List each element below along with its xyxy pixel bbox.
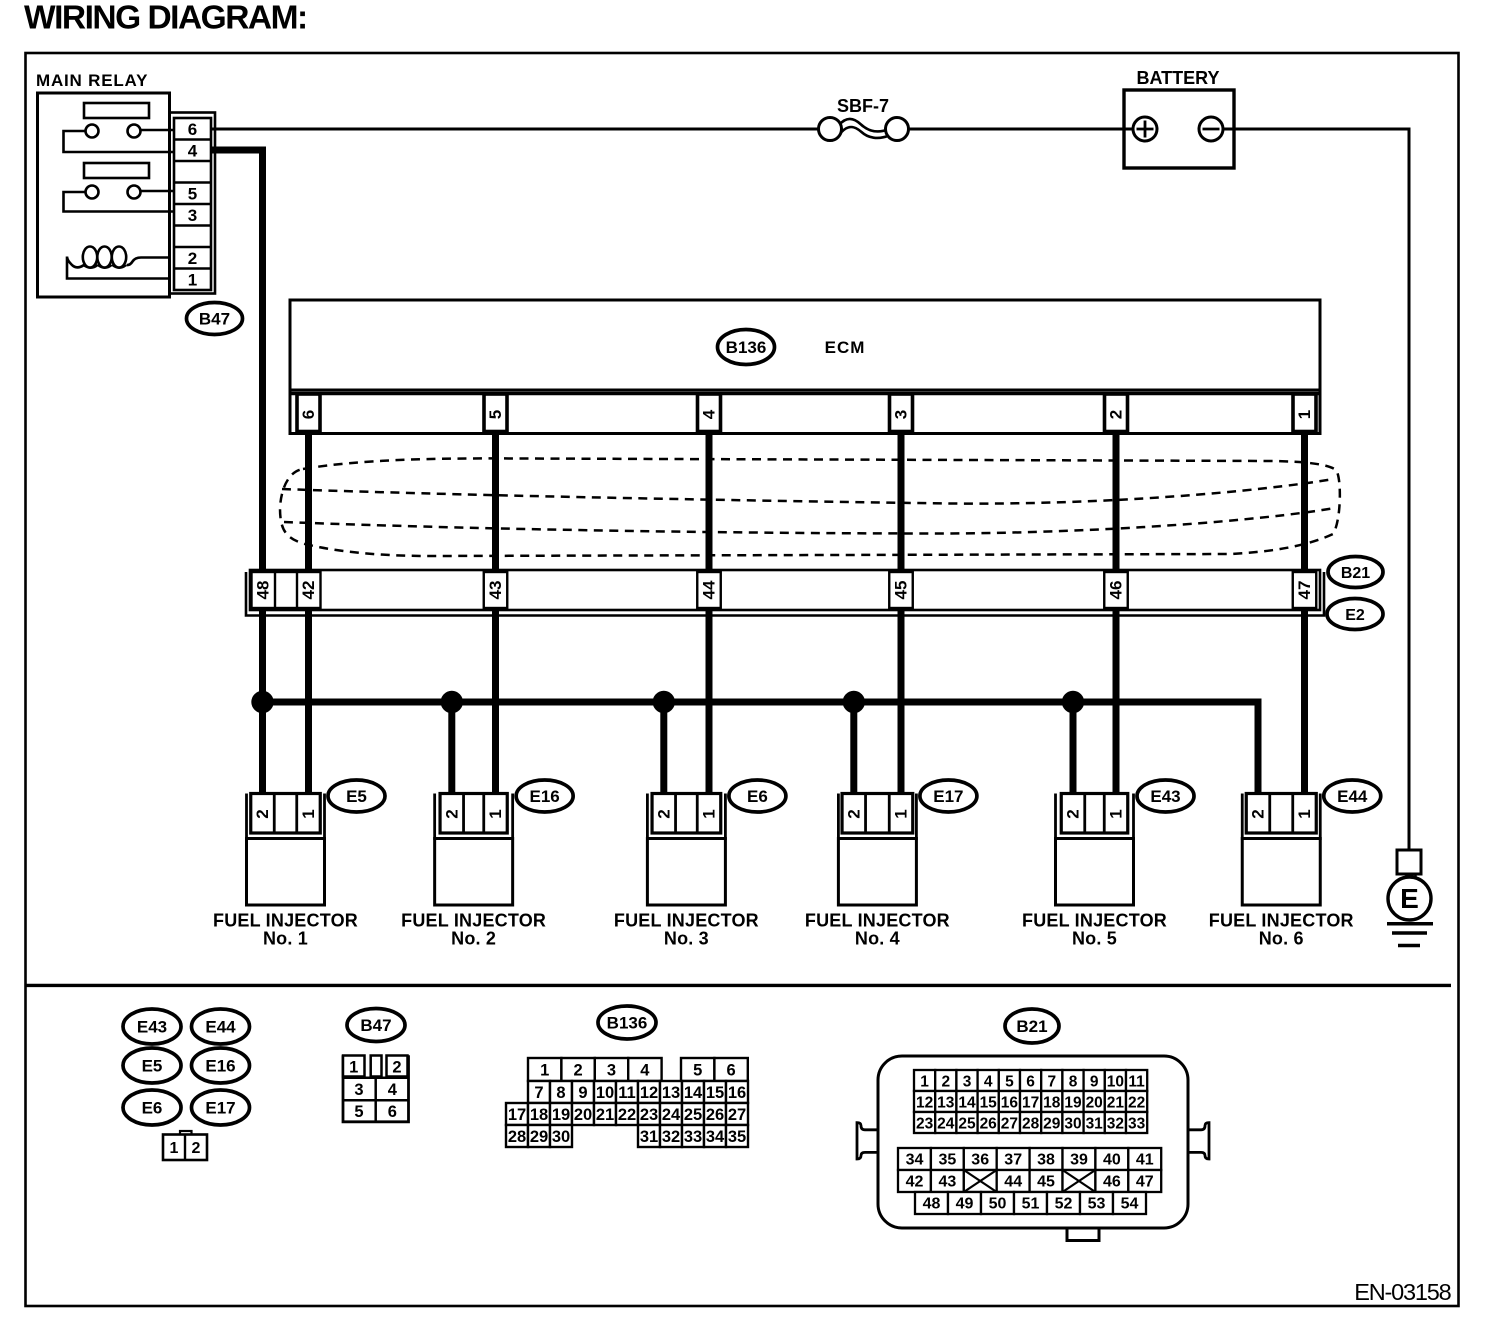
oval E43 view xyxy=(123,1009,181,1044)
svg-text:3: 3 xyxy=(607,1062,616,1080)
oval E2 row label xyxy=(1327,599,1383,630)
svg-text:1: 1 xyxy=(700,809,719,818)
oval E6 xyxy=(729,780,786,812)
svg-text:34: 34 xyxy=(706,1128,725,1146)
oval E5 view xyxy=(123,1048,181,1083)
svg-text:18: 18 xyxy=(530,1106,548,1124)
svg-text:48: 48 xyxy=(923,1196,941,1213)
svg-text:E6: E6 xyxy=(747,787,768,806)
svg-text:43: 43 xyxy=(486,581,505,600)
svg-text:1: 1 xyxy=(1295,410,1314,419)
svg-text:6: 6 xyxy=(188,120,197,139)
oval E44 view xyxy=(192,1009,250,1044)
svg-text:43: 43 xyxy=(939,1174,957,1191)
svg-text:26: 26 xyxy=(706,1106,724,1124)
svg-text:E16: E16 xyxy=(530,787,560,806)
svg-text:13: 13 xyxy=(662,1084,680,1102)
svg-text:1: 1 xyxy=(1295,809,1314,818)
svg-text:7: 7 xyxy=(534,1084,543,1102)
svg-text:6: 6 xyxy=(299,410,318,419)
wire ground bus to injector No.3 pin 2 xyxy=(660,702,667,798)
relay contact 1 left xyxy=(86,125,99,138)
oval E43 xyxy=(1137,780,1194,812)
oval B21 view xyxy=(1005,1009,1059,1043)
svg-text:20: 20 xyxy=(1086,1095,1103,1112)
svg-text:36: 36 xyxy=(971,1152,989,1169)
svg-text:B21: B21 xyxy=(1341,565,1370,582)
svg-text:39: 39 xyxy=(1070,1152,1088,1169)
svg-text:33: 33 xyxy=(684,1128,702,1146)
2-pin connector view xyxy=(163,1131,207,1160)
oval B47 xyxy=(187,303,243,335)
svg-text:5: 5 xyxy=(693,1062,702,1080)
svg-text:23: 23 xyxy=(640,1106,658,1124)
svg-text:9: 9 xyxy=(1090,1074,1099,1091)
svg-text:No. 1: No. 1 xyxy=(263,929,308,949)
svg-text:1: 1 xyxy=(299,809,318,818)
oval E17 xyxy=(920,780,977,812)
svg-text:5: 5 xyxy=(1005,1074,1014,1091)
svg-text:29: 29 xyxy=(1043,1116,1061,1133)
svg-text:E6: E6 xyxy=(142,1099,163,1118)
svg-text:8: 8 xyxy=(1069,1074,1078,1091)
wire ECM pin 1 to pin 47 to injector pin 1 xyxy=(1301,433,1308,798)
junction dot at injector No.1 branch xyxy=(251,691,273,713)
connector B47 pin grid view xyxy=(343,1055,409,1122)
svg-text:11: 11 xyxy=(1128,1074,1145,1091)
ground E xyxy=(1387,850,1433,946)
relay contact 2 right xyxy=(128,186,141,199)
svg-text:E5: E5 xyxy=(346,787,367,806)
svg-text:1: 1 xyxy=(892,809,911,818)
oval E44 xyxy=(1324,780,1381,812)
svg-text:ECM: ECM xyxy=(825,338,866,357)
svg-text:30: 30 xyxy=(1064,1116,1081,1133)
svg-text:2: 2 xyxy=(392,1058,401,1076)
svg-text:12: 12 xyxy=(916,1095,933,1112)
svg-text:16: 16 xyxy=(1001,1095,1019,1112)
svg-text:1: 1 xyxy=(920,1074,929,1091)
oval B136 view xyxy=(598,1006,656,1039)
fuse SBF-7 xyxy=(819,118,909,141)
separator line between diagram and connector views xyxy=(26,984,1452,987)
svg-text:27: 27 xyxy=(728,1106,746,1124)
svg-text:1: 1 xyxy=(349,1058,358,1076)
wire contact1-right to pin 6 xyxy=(141,129,177,132)
main relay box xyxy=(38,93,170,297)
oval E5 xyxy=(328,780,385,812)
svg-text:49: 49 xyxy=(956,1196,974,1213)
svg-text:15: 15 xyxy=(980,1095,998,1112)
svg-text:2: 2 xyxy=(654,809,673,818)
oval E16 view xyxy=(192,1048,250,1083)
svg-text:13: 13 xyxy=(937,1095,955,1112)
junction dot at injector No.4 branch xyxy=(843,691,865,713)
svg-text:10: 10 xyxy=(596,1084,614,1102)
svg-text:42: 42 xyxy=(299,581,318,600)
svg-text:E43: E43 xyxy=(1150,787,1180,806)
svg-text:44: 44 xyxy=(700,580,719,599)
relay contact bar 1 xyxy=(84,103,149,118)
svg-text:48: 48 xyxy=(254,581,273,600)
ECM connector row xyxy=(290,390,1320,434)
dashed wiring harness outline xyxy=(280,458,1340,556)
connector B21 pin grid view xyxy=(898,1070,1161,1214)
svg-text:EN-03158: EN-03158 xyxy=(1354,1279,1451,1305)
connector B47 strip outline xyxy=(170,113,216,294)
wire ECM pin 3 to pin 45 to injector pin 1 xyxy=(898,433,905,798)
svg-text:45: 45 xyxy=(892,581,911,600)
svg-text:16: 16 xyxy=(728,1084,746,1102)
svg-text:3: 3 xyxy=(354,1081,363,1099)
svg-text:19: 19 xyxy=(1064,1095,1082,1112)
svg-text:18: 18 xyxy=(1043,1095,1061,1112)
svg-text:28: 28 xyxy=(508,1128,526,1146)
svg-text:E16: E16 xyxy=(205,1057,235,1076)
svg-text:45: 45 xyxy=(1037,1174,1055,1191)
svg-text:E2: E2 xyxy=(1345,607,1365,624)
svg-text:1: 1 xyxy=(540,1062,549,1080)
svg-text:28: 28 xyxy=(1022,1116,1040,1133)
svg-text:4: 4 xyxy=(640,1062,650,1080)
svg-text:2: 2 xyxy=(1064,809,1083,818)
connector B21 housing xyxy=(857,1056,1209,1241)
svg-text:30: 30 xyxy=(552,1128,570,1146)
svg-text:6: 6 xyxy=(1026,1074,1035,1091)
wire fuse to battery plus xyxy=(901,128,1134,131)
svg-text:23: 23 xyxy=(916,1116,934,1133)
svg-text:53: 53 xyxy=(1088,1196,1106,1213)
wire ground bus to injector No.5 pin 2 xyxy=(1070,702,1077,798)
svg-text:B136: B136 xyxy=(726,338,767,357)
lower connector row xyxy=(250,570,1320,610)
svg-text:FUEL INJECTOR: FUEL INJECTOR xyxy=(614,911,759,931)
oval E16 xyxy=(516,780,573,812)
fuel injector No. 4 xyxy=(805,794,950,949)
wire pin6 to fuse xyxy=(211,128,826,131)
relay coil xyxy=(67,247,168,279)
svg-text:38: 38 xyxy=(1037,1152,1055,1169)
svg-text:46: 46 xyxy=(1103,1174,1121,1191)
svg-text:B21: B21 xyxy=(1016,1017,1047,1036)
svg-text:E44: E44 xyxy=(205,1018,236,1037)
svg-text:1: 1 xyxy=(486,809,505,818)
svg-text:35: 35 xyxy=(728,1128,746,1146)
svg-text:26: 26 xyxy=(980,1116,998,1133)
svg-text:37: 37 xyxy=(1004,1152,1022,1169)
svg-text:E44: E44 xyxy=(1337,787,1368,806)
svg-text:WIRING DIAGRAM:: WIRING DIAGRAM: xyxy=(24,0,307,37)
wire battery minus to ground drop xyxy=(1222,129,1409,849)
svg-text:10: 10 xyxy=(1107,1074,1124,1091)
svg-text:22: 22 xyxy=(1128,1095,1145,1112)
junction dot at injector No.5 branch xyxy=(1062,691,1084,713)
wire contact1-left to pin 4 xyxy=(64,131,177,152)
svg-text:2: 2 xyxy=(188,249,197,268)
svg-text:3: 3 xyxy=(963,1074,972,1091)
svg-text:17: 17 xyxy=(1022,1095,1039,1112)
svg-text:24: 24 xyxy=(937,1116,955,1133)
svg-text:4: 4 xyxy=(188,141,198,160)
svg-text:5: 5 xyxy=(188,184,197,203)
svg-text:SBF-7: SBF-7 xyxy=(837,96,889,116)
svg-text:32: 32 xyxy=(1107,1116,1124,1133)
svg-text:MAIN RELAY: MAIN RELAY xyxy=(36,71,148,90)
svg-text:2: 2 xyxy=(1249,809,1268,818)
svg-text:32: 32 xyxy=(662,1128,680,1146)
svg-text:33: 33 xyxy=(1128,1116,1146,1133)
svg-text:34: 34 xyxy=(906,1152,924,1169)
svg-text:FUEL INJECTOR: FUEL INJECTOR xyxy=(213,911,358,931)
svg-text:3: 3 xyxy=(892,410,911,419)
svg-text:19: 19 xyxy=(552,1106,570,1124)
battery minus terminal xyxy=(1199,117,1223,141)
fuel injector No. 1 xyxy=(213,794,358,949)
thick ground bus xyxy=(259,699,1262,706)
svg-text:52: 52 xyxy=(1055,1196,1073,1213)
svg-text:3: 3 xyxy=(188,206,197,225)
fuel injector No. 5 xyxy=(1022,794,1167,949)
svg-text:1: 1 xyxy=(1107,809,1126,818)
svg-text:47: 47 xyxy=(1136,1174,1154,1191)
svg-text:FUEL INJECTOR: FUEL INJECTOR xyxy=(401,911,546,931)
fuel injector No. 3 xyxy=(614,794,759,949)
svg-text:8: 8 xyxy=(556,1084,565,1102)
svg-text:29: 29 xyxy=(530,1128,548,1146)
svg-text:51: 51 xyxy=(1022,1196,1040,1213)
svg-text:E43: E43 xyxy=(137,1018,167,1037)
wire contact2-left to pin 3 xyxy=(64,192,177,212)
wire ECM pin 4 to pin 44 to injector pin 1 xyxy=(706,433,713,798)
svg-text:40: 40 xyxy=(1103,1152,1121,1169)
svg-text:B47: B47 xyxy=(360,1016,391,1035)
lower connector row bracket xyxy=(246,572,1324,616)
battery box xyxy=(1124,90,1234,168)
relay contact 2 left xyxy=(86,186,99,199)
oval B136 xyxy=(718,330,775,365)
relay contact bar 2 xyxy=(84,163,149,178)
svg-text:35: 35 xyxy=(939,1152,957,1169)
svg-text:2: 2 xyxy=(192,1140,201,1157)
svg-text:47: 47 xyxy=(1295,581,1314,600)
oval B47 view xyxy=(347,1009,405,1042)
wire ECM pin 2 to pin 46 to injector pin 1 xyxy=(1113,433,1120,798)
svg-text:41: 41 xyxy=(1136,1152,1154,1169)
wire ground bus to injector No.6 pin 2 xyxy=(1255,702,1262,798)
battery plus terminal xyxy=(1133,117,1157,141)
svg-text:11: 11 xyxy=(618,1084,635,1102)
svg-text:4: 4 xyxy=(700,409,719,419)
svg-text:2: 2 xyxy=(941,1074,950,1091)
ECM box xyxy=(290,300,1320,390)
wire ground bus to injector No.2 pin 2 xyxy=(448,702,455,798)
svg-text:46: 46 xyxy=(1107,581,1126,600)
svg-text:42: 42 xyxy=(906,1174,924,1191)
connector B47 pin cells xyxy=(174,118,211,290)
svg-text:FUEL INJECTOR: FUEL INJECTOR xyxy=(1209,911,1354,931)
oval B21 row label xyxy=(1328,557,1383,588)
svg-text:6: 6 xyxy=(388,1103,397,1121)
svg-text:2: 2 xyxy=(1107,410,1126,419)
svg-text:No. 6: No. 6 xyxy=(1259,929,1304,949)
svg-text:22: 22 xyxy=(618,1106,636,1124)
fuel injector No. 2 xyxy=(401,794,546,949)
connector B136 pin grid view xyxy=(506,1058,748,1147)
svg-text:4: 4 xyxy=(984,1074,993,1091)
svg-text:25: 25 xyxy=(958,1116,976,1133)
svg-text:14: 14 xyxy=(958,1095,976,1112)
svg-text:15: 15 xyxy=(706,1084,724,1102)
svg-text:2: 2 xyxy=(844,809,863,818)
svg-text:2: 2 xyxy=(574,1062,583,1080)
svg-text:FUEL INJECTOR: FUEL INJECTOR xyxy=(805,911,950,931)
svg-text:2: 2 xyxy=(253,809,272,818)
junction dot at injector No.2 branch xyxy=(441,691,463,713)
svg-text:21: 21 xyxy=(1107,1095,1125,1112)
svg-text:No. 5: No. 5 xyxy=(1072,929,1117,949)
svg-text:2: 2 xyxy=(442,809,461,818)
svg-text:5: 5 xyxy=(354,1103,363,1121)
wire ECM pin 5 to pin 43 to injector pin 1 xyxy=(492,433,499,798)
wire ground bus to injector No.4 pin 2 xyxy=(850,702,857,798)
oval E6 view xyxy=(123,1090,181,1125)
svg-text:7: 7 xyxy=(1047,1074,1056,1091)
svg-text:FUEL INJECTOR: FUEL INJECTOR xyxy=(1022,911,1167,931)
svg-text:6: 6 xyxy=(727,1062,736,1080)
svg-text:21: 21 xyxy=(596,1106,614,1124)
fuel injector No. 6 xyxy=(1209,794,1354,949)
wire contact2-right to pin 5 xyxy=(141,190,177,193)
svg-text:50: 50 xyxy=(989,1196,1007,1213)
svg-text:20: 20 xyxy=(574,1106,592,1124)
svg-text:No. 3: No. 3 xyxy=(664,929,709,949)
svg-text:17: 17 xyxy=(508,1106,526,1124)
svg-text:4: 4 xyxy=(388,1081,398,1099)
svg-text:12: 12 xyxy=(640,1084,658,1102)
svg-text:54: 54 xyxy=(1121,1196,1139,1213)
svg-text:25: 25 xyxy=(684,1106,702,1124)
svg-text:31: 31 xyxy=(1086,1116,1104,1133)
wire ECM pin 6 to pin 42 to injector pin 1 xyxy=(305,433,312,798)
svg-text:5: 5 xyxy=(486,410,505,419)
svg-text:1: 1 xyxy=(188,270,197,289)
relay contact 1 right xyxy=(128,125,141,138)
svg-text:1: 1 xyxy=(170,1140,179,1157)
thick wire relay pin4 feed down xyxy=(211,150,263,798)
svg-text:B136: B136 xyxy=(607,1014,648,1033)
svg-text:27: 27 xyxy=(1001,1116,1018,1133)
svg-text:24: 24 xyxy=(662,1106,681,1124)
svg-text:B47: B47 xyxy=(199,310,230,329)
svg-text:E17: E17 xyxy=(205,1099,235,1118)
svg-text:44: 44 xyxy=(1004,1174,1022,1191)
svg-text:9: 9 xyxy=(578,1084,587,1102)
svg-text:BATTERY: BATTERY xyxy=(1137,68,1220,88)
junction dot at injector No.3 branch xyxy=(653,691,675,713)
oval E17 view xyxy=(192,1090,250,1125)
svg-text:31: 31 xyxy=(640,1128,658,1146)
svg-text:No. 4: No. 4 xyxy=(855,929,900,949)
svg-text:E5: E5 xyxy=(142,1057,163,1076)
svg-text:No. 2: No. 2 xyxy=(451,929,496,949)
svg-text:E17: E17 xyxy=(933,787,963,806)
svg-text:14: 14 xyxy=(684,1084,703,1102)
svg-text:E: E xyxy=(1400,883,1419,914)
